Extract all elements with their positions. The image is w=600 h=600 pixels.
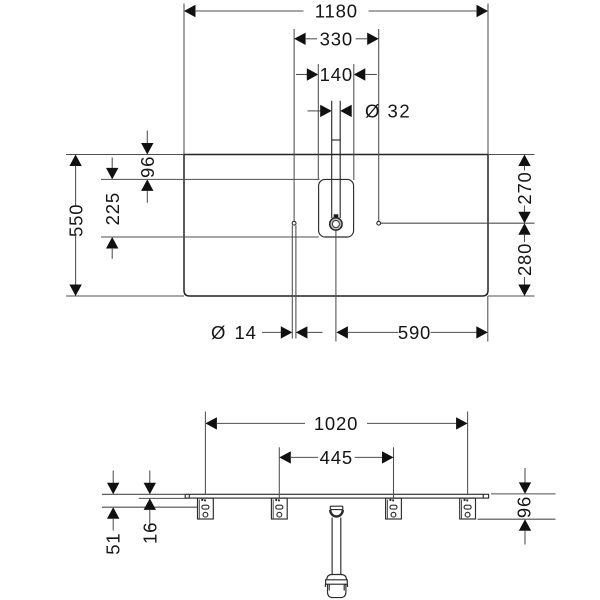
svg-text:1020: 1020 — [314, 413, 358, 434]
dim 1020 extension lines — [204, 412, 206, 494]
trap nut band — [326, 580, 348, 584]
plate top extension line left — [66, 154, 184, 156]
faucet centre extension line down — [335, 230, 337, 341]
225 bottom extension line (cutout bottom) — [101, 236, 319, 238]
svg-text:Ø: Ø — [211, 322, 226, 343]
dim 1180 extension lines — [183, 4, 185, 155]
bracket 3 — [386, 498, 402, 519]
dim 96 top view (converging arrows) — [146, 131, 148, 144]
bracket 4 — [460, 498, 476, 519]
dim 445 extension lines — [278, 447, 280, 498]
svg-text:225: 225 — [102, 192, 123, 225]
plate bottom extension line left — [66, 295, 184, 297]
plate bottom extension line right — [488, 295, 535, 297]
dim 550 — [69, 155, 81, 167]
dim 270 right side — [518, 155, 530, 167]
dim 140 (outside arrows) — [296, 74, 307, 76]
trap cup — [328, 584, 346, 597]
fixing hole right — [377, 221, 381, 225]
51 bottom extension line (to bracket slot) — [102, 506, 198, 508]
plate top extension line right — [488, 154, 535, 156]
svg-text:140: 140 — [320, 64, 353, 85]
faucet cutout rounded rect — [319, 179, 354, 237]
holes axis line right — [381, 222, 535, 224]
dim 590 — [336, 326, 348, 338]
svg-text:590: 590 — [398, 322, 431, 343]
svg-text:16: 16 — [140, 522, 161, 544]
96-line: extension to cutout top — [101, 178, 320, 180]
plate top extension line left — [102, 493, 185, 495]
drain pipe — [331, 518, 333, 575]
dim 16 — [149, 471, 151, 484]
right edge extension line down — [487, 296, 489, 342]
dim 330 — [294, 33, 306, 45]
svg-text:Ø 32: Ø 32 — [365, 101, 411, 122]
dim 1180 — [184, 5, 196, 17]
svg-text:14: 14 — [235, 322, 257, 343]
dim 96 front view — [524, 468, 526, 483]
trap collar — [327, 575, 347, 580]
faucet slot lines (Ø32) — [331, 101, 333, 218]
dim 51 — [112, 471, 114, 484]
dim 140 extension lines (cutout width) — [317, 64, 319, 180]
svg-text:550: 550 — [65, 204, 86, 237]
Ø14 extension lines below left hole — [291, 225, 293, 338]
svg-text:51: 51 — [103, 533, 124, 555]
svg-text:96: 96 — [513, 496, 534, 518]
console plate (side profile) — [185, 494, 488, 498]
drain fitting U-ring — [330, 510, 343, 517]
svg-text:330: 330 — [320, 29, 353, 50]
svg-text:96: 96 — [137, 156, 158, 178]
bracket 1 — [198, 498, 214, 519]
dim 225 (converging arrows) — [111, 158, 113, 169]
svg-text:280: 280 — [514, 243, 535, 276]
console plate outline (plan view) — [184, 155, 488, 297]
drain fitting cap — [330, 506, 343, 509]
dim 330 extension lines (to fixing holes) — [293, 29, 295, 221]
svg-text:1180: 1180 — [315, 1, 358, 22]
bracket 2 — [271, 498, 287, 519]
dim 96 front view extension lines — [491, 493, 556, 495]
svg-text:270: 270 — [514, 171, 535, 204]
dim 1020 — [205, 417, 217, 429]
dim 280 right side — [518, 223, 530, 235]
16 bottom extension line — [139, 497, 189, 499]
faucet hole ring — [330, 218, 342, 230]
svg-text:445: 445 — [320, 447, 353, 468]
dim Ø32 (outside arrows) — [308, 110, 321, 112]
faucet stub (dark) — [334, 214, 339, 217]
dim 445 — [279, 451, 291, 463]
fixing hole left (Ø14) — [292, 221, 296, 225]
